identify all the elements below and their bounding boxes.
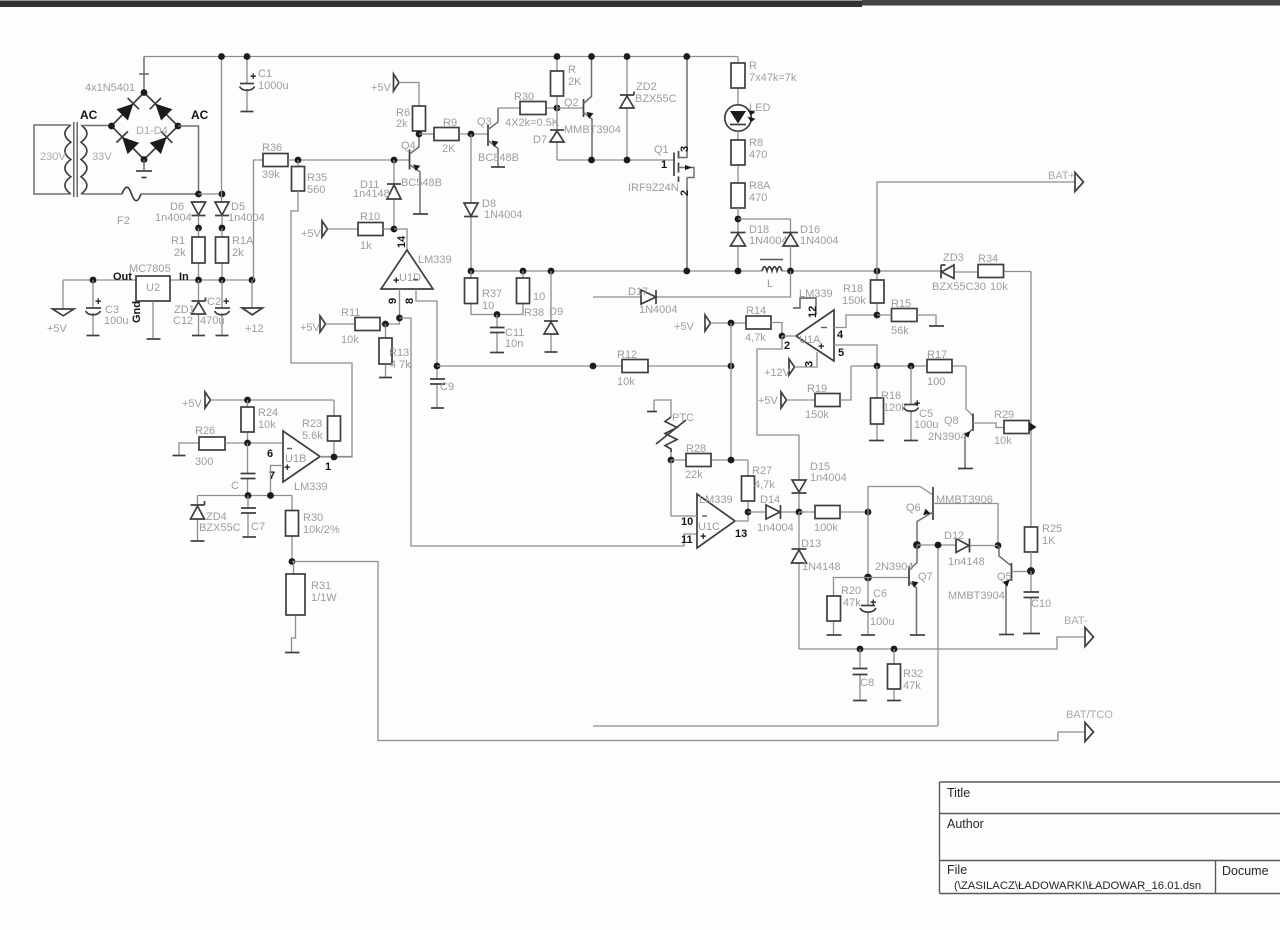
svg-text:8: 8 (404, 298, 416, 304)
svg-text:+5V: +5V (758, 395, 779, 407)
svg-text:PTC: PTC (672, 412, 694, 424)
diode D7 (556, 108, 558, 160)
svg-text:R8: R8 (749, 137, 763, 149)
diode D16 (738, 219, 791, 232)
svg-text:ZD3: ZD3 (943, 252, 964, 264)
diode D15 (798, 435, 800, 512)
svg-text:+5V: +5V (301, 228, 322, 240)
zener ZD1 (198, 280, 200, 335)
svg-text:2N3904: 2N3904 (875, 561, 914, 573)
svg-text:Gnd: Gnd (131, 301, 143, 323)
polarity tick (139, 73, 149, 75)
svg-text:R1: R1 (171, 235, 185, 247)
svg-text:D14: D14 (760, 494, 780, 506)
diode D5 (215, 202, 229, 215)
bridge diode top-left (117, 104, 134, 121)
pin 7 wire (271, 466, 284, 496)
svg-text:1N4004: 1N4004 (639, 304, 678, 316)
svg-text:R10: R10 (360, 211, 380, 223)
svg-text:3: 3 (679, 146, 691, 152)
svg-text:MC7805: MC7805 (129, 263, 171, 275)
svg-text:4 7k: 4 7k (390, 359, 411, 371)
svg-text:BC548B: BC548B (401, 177, 442, 189)
svg-text:D9: D9 (549, 306, 563, 318)
svg-text:R13: R13 (389, 347, 409, 359)
transistor Q5 (1011, 563, 1013, 581)
op-amp U1C (697, 494, 735, 548)
resistor R26 (179, 443, 199, 455)
svg-text:230V: 230V (40, 151, 66, 163)
resistor R1 (198, 228, 200, 280)
svg-text:+: + (700, 531, 706, 543)
diode D8 (470, 134, 472, 271)
svg-text:Q4: Q4 (401, 140, 416, 152)
transformer T primary winding (65, 125, 71, 194)
resistor R8 (737, 131, 739, 183)
svg-text:10k: 10k (990, 281, 1008, 293)
resistor R30 (divider) (291, 496, 293, 562)
resistor R28 (671, 459, 748, 461)
resistor R13 (385, 324, 387, 377)
node dots bridge vertices (108, 123, 115, 130)
svg-text:1k: 1k (360, 240, 372, 252)
svg-text:U2: U2 (146, 282, 160, 294)
svg-text:R36: R36 (262, 142, 282, 154)
capacitor C3 (92, 280, 94, 335)
svg-text:R19: R19 (807, 383, 827, 395)
svg-text:C: C (231, 480, 239, 492)
wire bus to D5 (221, 57, 224, 203)
resistor R35 (297, 160, 299, 167)
transistor Q8 (966, 366, 973, 416)
resistor R11 (355, 318, 380, 331)
svg-text:+12: +12 (245, 323, 264, 335)
resistor R36 (263, 154, 288, 167)
resistor R17 (927, 360, 952, 373)
inductor L (762, 267, 782, 271)
LED (725, 105, 751, 131)
svg-text:AC: AC (80, 108, 98, 122)
svg-text:R32: R32 (903, 668, 923, 680)
svg-text:Q5: Q5 (997, 571, 1012, 583)
pin 8 stub (416, 289, 437, 366)
resistor R 2K (556, 57, 558, 109)
resistor R20 (834, 578, 869, 635)
svg-text:F2: F2 (117, 215, 130, 227)
svg-text:1/1W: 1/1W (311, 592, 337, 604)
power flag +5V (R19) (781, 392, 787, 408)
bridge diode bottom-left (122, 137, 139, 154)
node D5-R1A (219, 225, 226, 232)
svg-text:1N4004: 1N4004 (800, 235, 839, 247)
wire latch rail down (937, 545, 939, 726)
svg-text:R26: R26 (195, 425, 215, 437)
svg-text:5.6k: 5.6k (302, 430, 323, 442)
svg-text:R30: R30 (303, 512, 323, 524)
zener ZD2 (626, 57, 628, 161)
transformer core (74, 122, 77, 197)
svg-text:C12: C12 (173, 315, 193, 327)
svg-text:+: + (250, 71, 256, 83)
svg-text:C2: C2 (207, 296, 221, 308)
wire PTC tap down (730, 366, 732, 460)
svg-text:C6: C6 (873, 588, 887, 600)
diode D9 (550, 271, 552, 352)
wire bridge right AC down (178, 126, 199, 194)
diode D13 (798, 512, 800, 649)
zener ZD3 (941, 265, 946, 279)
power flag +12V (789, 359, 795, 375)
wire U1D out to U1C pin11 (400, 318, 698, 546)
diode D6 (192, 202, 206, 215)
wire R36 to Q4 base (288, 159, 410, 161)
svg-text:300: 300 (195, 456, 213, 468)
wire U1D pin14 (394, 229, 407, 250)
svg-text:R24: R24 (258, 407, 278, 419)
svg-text:+: + (284, 462, 290, 474)
resistor R34 (978, 265, 1004, 278)
resistor R16 (876, 366, 878, 440)
svg-text:R9: R9 (443, 117, 457, 129)
resistor R37 (471, 271, 497, 315)
bridge diode bottom-right (150, 137, 167, 154)
svg-text:R35: R35 (307, 172, 327, 184)
svg-text:10: 10 (681, 516, 693, 528)
svg-text:13: 13 (735, 528, 747, 540)
wire fuse to AC node (141, 193, 199, 195)
svg-text:100u: 100u (914, 419, 938, 431)
diode D14 (748, 511, 799, 513)
power flag +5V (R24) (205, 392, 211, 408)
op-amp U1A (796, 310, 834, 361)
power flag +5V (R10) (322, 221, 328, 237)
diode D18 (731, 232, 746, 234)
svg-text:LED: LED (749, 102, 770, 114)
PTC thermistor (654, 400, 671, 417)
svg-text:BAT/TCO: BAT/TCO (1066, 709, 1113, 721)
svg-text:3: 3 (804, 361, 816, 367)
svg-text:100k: 100k (814, 522, 838, 534)
mosfet Q1 IRF9Z24N (673, 153, 675, 177)
svg-text:1N4004: 1N4004 (749, 235, 788, 247)
svg-text:470u: 470u (200, 315, 224, 327)
svg-text:10: 10 (482, 300, 494, 312)
svg-text:+5V: +5V (182, 398, 203, 410)
resistor R23 (333, 400, 335, 457)
svg-text:150k: 150k (805, 409, 829, 421)
wire primary leads (34, 125, 71, 194)
svg-text:2k: 2k (174, 247, 186, 259)
svg-text:R23: R23 (302, 418, 322, 430)
svg-text:L: L (767, 278, 773, 290)
transformer T secondary winding (81, 125, 87, 194)
svg-text:R14: R14 (746, 305, 766, 317)
svg-text:+: + (223, 296, 229, 308)
svg-text:100: 100 (927, 376, 945, 388)
resistor R31 (292, 562, 296, 653)
resistor R6 (413, 106, 426, 131)
svg-text:LM339: LM339 (699, 494, 733, 506)
wire gate net y160 (557, 159, 674, 161)
svg-text:Out: Out (113, 271, 132, 283)
port BAT/TCO (1085, 723, 1094, 742)
capacitor C9 (436, 366, 438, 408)
wire latch to sense rail (593, 725, 938, 727)
svg-text:Q1: Q1 (654, 144, 669, 156)
svg-text:150k: 150k (842, 295, 866, 307)
zener ZD4 (197, 496, 199, 541)
svg-text:+: + (393, 275, 399, 287)
resistor R18 (876, 271, 878, 315)
capacitor C8 (859, 649, 861, 700)
svg-text:+5V: +5V (47, 323, 68, 335)
power flag +5V (R6) (394, 74, 400, 91)
capacitor C5 (910, 366, 912, 440)
wire Q6 collector (868, 487, 933, 513)
pin 10 wire (671, 460, 697, 516)
wire riser to R36 (254, 160, 264, 280)
regulator U2 MC7805 (136, 276, 170, 301)
svg-text:+: + (818, 341, 824, 353)
wire to D5 column (199, 193, 223, 195)
ground symbol +12 rail (251, 280, 253, 308)
svg-text:1000u: 1000u (258, 80, 289, 92)
transistor Q2 (557, 107, 584, 109)
diode D17 (593, 271, 791, 297)
svg-text:1N4148: 1N4148 (802, 561, 841, 573)
svg-text:(\ZASILACZ\ŁADOWARKI\ŁADOWAR_1: (\ZASILACZ\ŁADOWARKI\ŁADOWAR_16.01.dsn (954, 880, 1201, 892)
resistor R1A (221, 228, 223, 280)
svg-text:R: R (749, 60, 757, 72)
transistor Q6 MMBT3906 (932, 487, 934, 520)
svg-text:9: 9 (387, 298, 399, 304)
svg-text:1n4004: 1n4004 (757, 522, 794, 534)
svg-text:2K: 2K (442, 143, 456, 155)
svg-text:MMBT3904: MMBT3904 (948, 590, 1005, 602)
svg-text:470: 470 (749, 149, 767, 161)
svg-text:22k: 22k (685, 469, 703, 481)
transistor Q7 (868, 577, 909, 579)
svg-text:+5V: +5V (371, 82, 392, 94)
svg-text:+5V: +5V (300, 322, 321, 334)
svg-text:D12: D12 (944, 530, 964, 542)
resistor R12 (622, 360, 648, 373)
svg-text:1: 1 (325, 461, 331, 473)
svg-text:11: 11 (681, 534, 693, 546)
op-amp U1B (283, 431, 320, 482)
svg-text:R38: R38 (524, 307, 544, 319)
svg-text:File: File (947, 863, 967, 877)
svg-text:R25: R25 (1042, 523, 1062, 535)
svg-text:BAT+: BAT+ (1048, 170, 1075, 182)
svg-text:D17: D17 (628, 286, 648, 298)
power flag +5V (R14) (705, 315, 711, 331)
svg-text:Q3: Q3 (477, 116, 492, 128)
wire main output net (471, 271, 1031, 272)
svg-text:U1D: U1D (399, 272, 421, 284)
svg-text:10k: 10k (617, 376, 635, 388)
diode D12 (917, 544, 998, 547)
svg-text:4,7k: 4,7k (745, 332, 766, 344)
svg-text:10k/2%: 10k/2% (303, 524, 340, 536)
svg-text:R1A: R1A (232, 235, 254, 247)
wire top bus (144, 56, 738, 58)
wire bridge plus up to bus (143, 57, 145, 93)
svg-text:R31: R31 (311, 580, 331, 592)
svg-text:2: 2 (784, 340, 790, 352)
resistor R32 (893, 649, 895, 700)
svg-text:+: + (95, 296, 101, 308)
pin 4 input wire (834, 315, 877, 328)
svg-text:Title: Title (947, 786, 970, 800)
wire BAT/TCO long run (292, 562, 1085, 741)
transistor Q4 (409, 150, 411, 170)
svg-text:Docume: Docume (1222, 864, 1269, 878)
svg-text:10n: 10n (505, 338, 523, 350)
svg-text:R30: R30 (514, 91, 534, 103)
wire feedback right rail (1030, 272, 1032, 528)
svg-text:LM339: LM339 (418, 254, 452, 266)
svg-text:+12V: +12V (764, 367, 791, 379)
resistor R15 (892, 309, 918, 322)
svg-text:R17: R17 (927, 349, 947, 361)
wire secondary bottom lead to fuse (81, 193, 122, 195)
capacitor C6 (867, 578, 869, 635)
svg-text:560: 560 (307, 184, 325, 196)
svg-text:BC848B: BC848B (478, 152, 519, 164)
bridge diode top-right (155, 104, 172, 121)
U1A output wire (782, 335, 796, 337)
svg-text:39k: 39k (262, 169, 280, 181)
svg-text:1n4004: 1n4004 (155, 212, 192, 224)
bridge rectifier D1-D4 diamond (112, 93, 179, 160)
svg-text:Q7: Q7 (918, 571, 933, 583)
svg-text:33V: 33V (92, 151, 112, 163)
op-amp U1D (381, 250, 433, 289)
transistor Q3 (487, 125, 489, 146)
svg-text:LM339: LM339 (294, 481, 328, 493)
svg-text:D13: D13 (801, 538, 821, 550)
wire BAT+ feed (877, 182, 1075, 271)
U1C output (735, 512, 748, 521)
wire Q7 base node (867, 512, 869, 578)
svg-text:10k: 10k (341, 334, 359, 346)
svg-text:In: In (179, 271, 189, 283)
svg-text:R15: R15 (891, 298, 911, 310)
svg-text:14: 14 (396, 235, 408, 248)
capacitor C10 (1030, 571, 1032, 633)
wire U2 gnd (152, 301, 154, 338)
node D6-R1 (195, 225, 202, 232)
svg-text:1n4148: 1n4148 (948, 556, 985, 568)
capacitor C11 (496, 315, 498, 353)
svg-text:BZX55C: BZX55C (635, 93, 677, 105)
capacitor C (247, 443, 249, 496)
svg-text:470: 470 (749, 192, 767, 204)
svg-text:+5V: +5V (674, 321, 695, 333)
resistor R30 (driver) (498, 107, 557, 109)
svg-text:100u: 100u (104, 315, 128, 327)
svg-text:R20: R20 (841, 585, 861, 597)
node AC-D6 (195, 191, 202, 198)
scanner top dark bar (0, 1, 1280, 6)
svg-text:R12: R12 (617, 349, 637, 361)
resistor R 7x47k (737, 57, 739, 105)
svg-text:4: 4 (837, 329, 844, 341)
svg-text:12: 12 (807, 306, 819, 318)
capacitor C7 (247, 496, 249, 537)
capacitor C1 (246, 57, 248, 112)
svg-text:10k: 10k (994, 435, 1012, 447)
title block frame (940, 782, 1280, 894)
svg-text:C1: C1 (258, 68, 272, 80)
resistor R14 (746, 316, 771, 329)
svg-text:ZD2: ZD2 (636, 81, 657, 93)
pin 9 stub (399, 289, 401, 318)
svg-text:1n4004: 1n4004 (228, 212, 265, 224)
svg-text:4x1N5401: 4x1N5401 (85, 82, 135, 94)
svg-text:AC: AC (191, 108, 209, 122)
svg-text:BZX55C30: BZX55C30 (932, 281, 986, 293)
wire zener net y495 (198, 495, 293, 497)
svg-text:Q6: Q6 (906, 502, 921, 514)
svg-text:2K: 2K (568, 76, 582, 88)
svg-text:5: 5 (838, 347, 844, 359)
ground symbol +5V rail (62, 280, 64, 309)
svg-text:R8A: R8A (749, 180, 771, 192)
svg-text:C7: C7 (251, 521, 265, 533)
svg-text:4,7k: 4,7k (754, 479, 775, 491)
svg-text:1N4004: 1N4004 (484, 209, 523, 221)
resistor R25 (1025, 527, 1038, 552)
svg-text:C10: C10 (1031, 598, 1051, 610)
svg-text:56k: 56k (891, 325, 909, 337)
svg-text:7x47k=7k: 7x47k=7k (749, 72, 797, 84)
svg-text:1n4004: 1n4004 (810, 472, 847, 484)
wire current-set net y366 (437, 365, 731, 367)
U1B output node (320, 456, 352, 458)
svg-text:2: 2 (679, 190, 691, 196)
svg-text:R27: R27 (752, 465, 772, 477)
wire bottom BAT- net (799, 637, 1085, 649)
svg-text:100u: 100u (870, 616, 894, 628)
resistor R29 (1004, 421, 1029, 434)
svg-text:R16: R16 (881, 390, 901, 402)
ground bridge minus (143, 160, 145, 171)
svg-text:4X2k=0.5K: 4X2k=0.5K (505, 117, 560, 129)
wire ref net (851, 365, 966, 367)
port BAT+ (1075, 173, 1084, 192)
svg-text:R34: R34 (978, 253, 998, 265)
svg-text:2k: 2k (396, 118, 408, 130)
resistor 100k (799, 511, 868, 513)
svg-text:6: 6 (267, 448, 273, 460)
svg-text:47k: 47k (903, 680, 921, 692)
svg-text:IRF9Z24N: IRF9Z24N (628, 182, 679, 194)
svg-text:10: 10 (533, 291, 545, 303)
svg-text:D7: D7 (533, 134, 547, 146)
svg-text:R28: R28 (686, 443, 706, 455)
junction arrow R29 to rail (1030, 423, 1037, 432)
svg-text:MMBT3906: MMBT3906 (936, 494, 993, 506)
svg-text:R11: R11 (341, 307, 360, 319)
svg-text:C8: C8 (860, 677, 874, 689)
resistor R38 (497, 271, 523, 315)
resistor R9 (419, 133, 434, 135)
svg-text:BZX55C: BZX55C (199, 522, 241, 534)
resistor R24 (247, 400, 249, 443)
chip power bracket pin12 (793, 298, 816, 315)
